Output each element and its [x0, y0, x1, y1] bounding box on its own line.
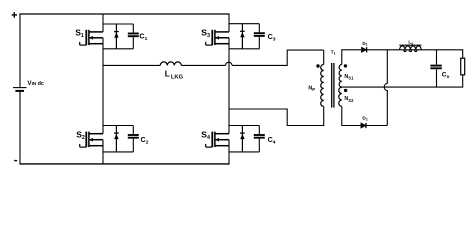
transformer secondary winding NS1	[339, 65, 342, 88]
node: secondary NS2 dot (phase)	[344, 89, 347, 92]
diode D1	[362, 47, 367, 52]
svg-text:C1: C1	[139, 32, 147, 42]
wire: D2 cathode to rectified node	[366, 125, 387, 127]
wire: clamp branch top edge (C3 cell)	[229, 23, 259, 25]
wire: L_LKG to crossover at leg2	[181, 64, 225, 66]
svg-text:T1: T1	[331, 49, 336, 55]
svg-text:C4: C4	[268, 135, 276, 145]
node: negative input terminal (-)	[14, 160, 17, 162]
transformer T1 primary winding Np	[321, 65, 324, 107]
transistor S2 (MOSFET)	[80, 132, 103, 148]
diode D2	[361, 123, 366, 128]
wire: crossover hop over leg 2	[226, 62, 232, 65]
resistor: output load	[461, 58, 465, 75]
wire: D1 cathode to rectified node	[367, 49, 463, 51]
svg-text:S3: S3	[201, 28, 210, 40]
svg-text:Co: Co	[442, 72, 450, 80]
wire: leg1 S1 source to S2 drain (node A)	[102, 38, 104, 134]
wire: leg2 S4 source to bottom rail	[228, 140, 230, 164]
transformer secondary winding NS2	[339, 87, 342, 106]
wire: clamp branch bottom edge (C3 cell)	[229, 48, 259, 50]
wire: clamp branch bottom edge (C1 cell)	[103, 48, 133, 50]
capacitor C4	[254, 126, 265, 152]
transistor S1 (MOSFET)	[80, 30, 103, 45]
svg-text:NS1: NS1	[344, 74, 354, 81]
wire: leg2 top rail to S3 drain	[228, 14, 230, 32]
wire: top DC bus rail	[19, 13, 229, 15]
wire: secondary top lead to D1 anode	[342, 50, 361, 65]
wire: load branch top	[462, 49, 464, 58]
inductor Lo (output filter)	[399, 45, 421, 51]
inductor L_LKG (leakage inductance)	[160, 62, 181, 66]
diode DS1 (body diode)	[114, 24, 119, 49]
diode DS2 (body diode)	[114, 126, 119, 152]
node: secondary NS1 dot (phase)	[344, 64, 347, 67]
wire: clamp branch top edge (C1 cell)	[103, 23, 133, 25]
wire: clamp branch top edge (C4 cell)	[229, 125, 259, 127]
svg-text:D1: D1	[362, 41, 367, 47]
wire: load branch bottom	[462, 75, 464, 88]
wire: battery to bottom rail	[19, 92, 21, 164]
svg-text:VIN dc: VIN dc	[27, 80, 44, 87]
capacitor C1	[128, 24, 139, 49]
svg-text:C3: C3	[268, 32, 276, 42]
wire: leg1 S2 source to bottom rail	[102, 140, 104, 164]
wire: rectified node down to D2 cathode (with hop over return)	[384, 50, 387, 126]
svg-text:NP: NP	[308, 86, 315, 93]
svg-text:S2: S2	[76, 129, 85, 141]
transformer core	[332, 63, 334, 108]
capacitor C3	[254, 24, 265, 49]
wire: node A to leakage inductor	[103, 64, 160, 66]
wire: clamp branch bottom edge (C4 cell)	[229, 151, 259, 153]
diode DS4 (body diode)	[240, 126, 245, 152]
wire: leg1 top rail to S1 drain	[102, 14, 104, 32]
svg-text:LLKG: LLKG	[165, 70, 184, 81]
wire: left bus from + to battery	[19, 13, 21, 86]
svg-text:S4: S4	[201, 129, 210, 141]
svg-text:D2: D2	[362, 116, 367, 122]
wire: secondary bottom lead to D2 anode	[342, 106, 361, 125]
wire: crossover to primary step-up	[232, 50, 324, 65]
capacitor C2	[128, 126, 139, 152]
node: primary dot (phase)	[316, 64, 319, 67]
wire: primary bottom lead and return to node B	[229, 106, 324, 125]
wire: bottom DC bus rail	[19, 163, 229, 165]
svg-text:S1: S1	[75, 28, 84, 40]
battery VIN dc	[13, 88, 27, 91]
diode DS3 (body diode)	[240, 24, 245, 49]
node: positive input terminal (+)	[12, 12, 17, 18]
wire: clamp branch top edge (C2 cell)	[103, 125, 133, 127]
svg-text:NS2: NS2	[344, 96, 354, 103]
wire: center tap return rail	[340, 86, 463, 88]
wire: leg2 S3 source to S4 drain (node B)	[228, 38, 230, 134]
wire: primary top lead	[323, 50, 325, 64]
wire: clamp branch bottom edge (C2 cell)	[103, 151, 133, 153]
svg-text:C2: C2	[141, 135, 149, 145]
transistor S4 (MOSFET)	[206, 132, 229, 148]
transistor S3 (MOSFET)	[206, 30, 229, 45]
capacitor Co	[430, 50, 441, 87]
